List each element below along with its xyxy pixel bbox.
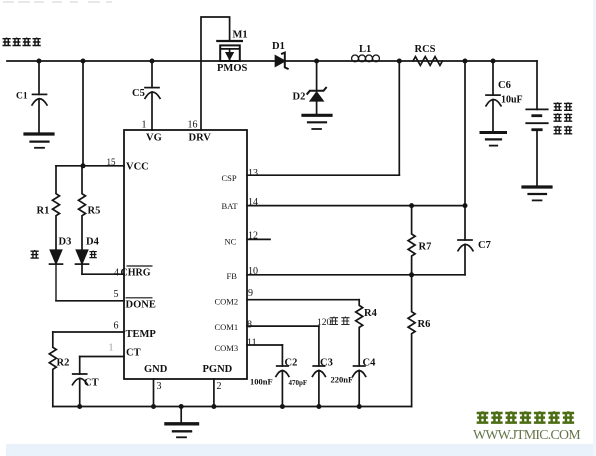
capacitor C7	[464, 206, 466, 240]
svg-text:2: 2	[217, 381, 222, 392]
svg-text:DONE: DONE	[126, 299, 156, 310]
svg-text:R4: R4	[364, 308, 378, 319]
wire PGND pin 2 stem	[213, 379, 215, 407]
svg-text:WWW.JTMIC.COM: WWW.JTMIC.COM	[473, 427, 580, 442]
zener D2	[307, 88, 326, 94]
svg-text:R7: R7	[419, 242, 432, 253]
capacitor C1	[33, 93, 47, 95]
svg-text:VCC: VCC	[126, 162, 149, 173]
LED D4	[77, 250, 88, 263]
capacitor C3	[318, 326, 320, 366]
svg-text:1: 1	[142, 120, 147, 131]
wire FB pin 10	[247, 274, 465, 276]
svg-text:D2: D2	[293, 92, 306, 103]
svg-text:R2: R2	[57, 357, 70, 368]
wire DRV gate loop	[201, 17, 230, 130]
wire battery drop	[536, 61, 538, 109]
svg-text:6: 6	[114, 321, 119, 332]
wire VCC column	[82, 61, 84, 166]
label 绿	[30, 250, 38, 258]
svg-text:1: 1	[109, 342, 114, 353]
svg-text:BAT: BAT	[222, 201, 239, 211]
wire D3 cathode to DONE	[55, 264, 57, 301]
label 输入电源	[2, 38, 40, 46]
resistor R7	[408, 206, 415, 275]
svg-text:R1: R1	[37, 206, 50, 217]
wire node B riser	[464, 61, 466, 206]
svg-text:120: 120	[317, 318, 332, 328]
wire VCC pin 15	[56, 165, 124, 167]
svg-text:COM3: COM3	[215, 343, 239, 353]
node FB-R6	[409, 272, 414, 277]
svg-text:10: 10	[248, 266, 258, 277]
node D2/top	[314, 59, 319, 64]
svg-text:3: 3	[157, 381, 162, 392]
svg-text:220nF: 220nF	[331, 375, 354, 385]
capacitor C2	[281, 345, 283, 366]
svg-text:CT: CT	[84, 377, 99, 388]
LED D3	[51, 250, 62, 263]
node dots	[37, 59, 496, 410]
node BAT-R7	[409, 203, 414, 208]
node BAT-C7	[463, 203, 468, 208]
label 红	[89, 251, 96, 258]
node C6/top	[491, 59, 496, 64]
resistor RCS	[413, 57, 442, 66]
svg-text:CSP: CSP	[222, 173, 237, 183]
svg-text:13: 13	[248, 168, 258, 179]
node bus-earth	[179, 404, 184, 409]
svg-text:D4: D4	[86, 237, 100, 248]
svg-text:M1: M1	[233, 30, 248, 41]
wire D4 cathode to CHRG	[81, 264, 83, 274]
transistor M1 PMOS	[217, 40, 242, 42]
svg-text:COM2: COM2	[215, 297, 239, 307]
svg-text:14: 14	[248, 197, 258, 208]
node C5/top	[150, 59, 155, 64]
svg-text:C5: C5	[132, 88, 145, 99]
svg-text:9: 9	[248, 288, 253, 299]
watermark 嘉泰姆电子元件	[477, 411, 574, 422]
pin name CHRG overline	[127, 265, 153, 267]
svg-text:NC: NC	[225, 237, 237, 247]
svg-text:5: 5	[114, 289, 119, 300]
svg-text:FB: FB	[227, 271, 238, 281]
wire D2 column	[316, 61, 318, 91]
svg-text:PMOS: PMOS	[217, 63, 247, 74]
svg-text:C1: C1	[16, 92, 28, 102]
svg-text:16: 16	[188, 120, 198, 131]
diode D1	[276, 56, 285, 66]
svg-text:10uF: 10uF	[501, 95, 523, 106]
capacitor C6	[492, 61, 494, 95]
right edge light strip	[593, 0, 596, 456]
svg-text:C7: C7	[478, 240, 491, 251]
ground (D2)	[303, 114, 331, 117]
svg-text:CT: CT	[126, 347, 141, 358]
node bus-CT	[77, 404, 82, 409]
wire NC pin 12 stub	[247, 238, 270, 240]
svg-text:4: 4	[114, 268, 119, 279]
resistor R1	[53, 166, 60, 250]
svg-text:PGND: PGND	[203, 364, 233, 375]
wire COM2 pin 9	[247, 299, 359, 301]
wire CHRG pin 4	[82, 273, 124, 275]
svg-text:TEMP: TEMP	[126, 329, 157, 340]
node C1/top	[37, 59, 42, 64]
resistor R6	[408, 275, 415, 407]
wire GND pin 3 stem	[153, 379, 155, 407]
svg-text:C2: C2	[285, 357, 298, 368]
wire DONE pin 5	[56, 300, 124, 302]
ground (C6)	[481, 131, 506, 134]
capacitor C4	[354, 365, 365, 367]
battery BT1	[526, 108, 547, 110]
svg-text:12: 12	[248, 231, 258, 242]
svg-text:D1: D1	[272, 41, 285, 52]
ground (battery)	[523, 185, 551, 188]
node bus-PGND	[211, 404, 216, 409]
node B top	[463, 59, 468, 64]
capacitor C5	[151, 61, 153, 88]
bottom light blue strip	[6, 444, 596, 456]
capacitor CT	[79, 357, 81, 375]
svg-text:RCS: RCS	[415, 44, 436, 55]
node VCC/top	[81, 59, 86, 64]
svg-text:11: 11	[247, 338, 257, 349]
wire CSP riser	[398, 61, 400, 175]
wire TEMP pin 6	[53, 331, 124, 333]
pin name DONE overline	[126, 297, 153, 299]
svg-text:DRV: DRV	[189, 133, 212, 144]
svg-text:GND: GND	[144, 364, 168, 375]
svg-text:8: 8	[247, 319, 252, 330]
wire CSP pin 13	[247, 174, 399, 176]
node bus-GND	[151, 404, 156, 409]
node bus-C4	[357, 404, 362, 409]
node bus-C2	[280, 404, 285, 409]
wire input column C1	[38, 61, 40, 94]
svg-text:15: 15	[107, 157, 117, 167]
node VCC junction	[81, 163, 86, 168]
svg-text:100nF: 100nF	[250, 376, 273, 386]
svg-text:VG: VG	[146, 133, 162, 144]
resistor R5	[79, 166, 86, 250]
svg-text:CHRG: CHRG	[121, 268, 151, 279]
wire BAT pin 14	[247, 205, 465, 207]
svg-text:R6: R6	[418, 319, 431, 330]
ground (bus)	[180, 407, 182, 423]
inductor L1	[352, 55, 359, 62]
wire COM1 pin 8	[247, 325, 319, 327]
svg-text:470pF: 470pF	[289, 379, 308, 387]
svg-text:R5: R5	[88, 206, 101, 217]
resistor R4	[356, 300, 363, 366]
svg-text:C6: C6	[498, 80, 511, 91]
svg-text:C3: C3	[320, 357, 333, 368]
ground (C1)	[25, 132, 53, 135]
svg-text:COM1: COM1	[215, 322, 239, 332]
node L1-RCS	[397, 59, 402, 64]
label 多节 镍氢 电池	[553, 102, 572, 134]
wire top rail	[7, 60, 537, 62]
resistor R2	[49, 332, 56, 407]
top cropped faint watermark text	[3, 1, 112, 3]
wire COM3 pin 11	[247, 344, 282, 346]
svg-text:D3: D3	[59, 237, 72, 248]
IC U1 body	[124, 130, 247, 379]
svg-text:L1: L1	[359, 44, 371, 55]
node bus-C3	[316, 404, 321, 409]
wire bottom bus	[53, 406, 412, 408]
svg-text:C4: C4	[363, 357, 377, 368]
wire CT pin	[80, 356, 124, 358]
